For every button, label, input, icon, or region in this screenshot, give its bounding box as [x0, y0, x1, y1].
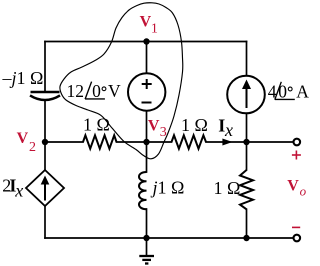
- node bottom-center dot: [143, 235, 149, 241]
- wire right branch below source: [246, 113, 248, 142]
- wire middle row center: [117, 141, 172, 143]
- svg-text:0: 0: [92, 81, 101, 101]
- dependent source 2Ix diamond: [26, 170, 64, 206]
- svg-text:1 Ω: 1 Ω: [181, 115, 208, 135]
- resistor R1 1ohm horizontal left: [83, 135, 117, 148]
- svg-text:A: A: [296, 81, 309, 101]
- node right-mid dot: [243, 139, 249, 145]
- wire middle branch upper: [146, 42, 148, 74]
- svg-text:x: x: [14, 181, 23, 201]
- wire middle branch lower: [146, 209, 148, 238]
- node V1 dot: [143, 38, 149, 44]
- wire top rail: [45, 41, 247, 43]
- wire middle branch to inductor: [146, 142, 148, 172]
- node V2 dot: [42, 139, 48, 145]
- label minus: [292, 226, 300, 228]
- wire right branch lower: [246, 209, 248, 238]
- node bottom-right dot: [243, 235, 249, 241]
- ground: [139, 238, 154, 264]
- inductor j1 ohm: [139, 172, 147, 209]
- svg-text:j1 Ω: j1 Ω: [151, 178, 185, 198]
- wire left branch upper: [44, 42, 46, 93]
- label 4/0 A: [268, 81, 309, 101]
- wire left branch middle: [44, 101, 46, 171]
- svg-text:x: x: [224, 120, 233, 140]
- wire middle row right: [206, 141, 292, 143]
- svg-text:–j1 Ω: –j1 Ω: [2, 68, 44, 88]
- voltage source U1 12/0 V: [128, 73, 165, 110]
- svg-text:V: V: [140, 13, 152, 30]
- wire middle branch below source: [146, 111, 148, 142]
- svg-text:V: V: [108, 81, 121, 101]
- svg-text:0: 0: [278, 81, 287, 101]
- wire right branch to resistor: [246, 142, 248, 170]
- wire middle row left: [45, 141, 83, 143]
- svg-text:1 Ω: 1 Ω: [214, 178, 241, 198]
- resistor R2 1ohm horizontal right: [172, 135, 207, 148]
- terminal bottom: [294, 235, 301, 242]
- svg-text:V: V: [287, 178, 299, 195]
- label 12/0 V: [67, 81, 122, 101]
- wire left branch lower: [44, 206, 46, 238]
- node V3 dot: [143, 139, 149, 145]
- wire right branch upper: [246, 42, 248, 76]
- svg-text:1: 1: [151, 22, 158, 37]
- label plus: [292, 151, 301, 160]
- svg-text:o: o: [300, 184, 307, 199]
- supernode loop: [60, 3, 183, 159]
- svg-text:2: 2: [29, 140, 36, 155]
- svg-text:1 Ω: 1 Ω: [83, 115, 110, 135]
- arrow Ix on wire: [222, 139, 232, 146]
- capacitor -j1 ohm: [30, 92, 60, 100]
- svg-text:V: V: [148, 117, 160, 134]
- resistor R3 1ohm vertical: [240, 170, 253, 209]
- svg-text:12: 12: [67, 81, 85, 101]
- wire bottom rail: [45, 237, 292, 239]
- svg-text:V: V: [17, 130, 29, 147]
- svg-text:3: 3: [160, 125, 167, 140]
- terminal top: [294, 139, 301, 146]
- current source I1 4/0 A: [227, 76, 265, 114]
